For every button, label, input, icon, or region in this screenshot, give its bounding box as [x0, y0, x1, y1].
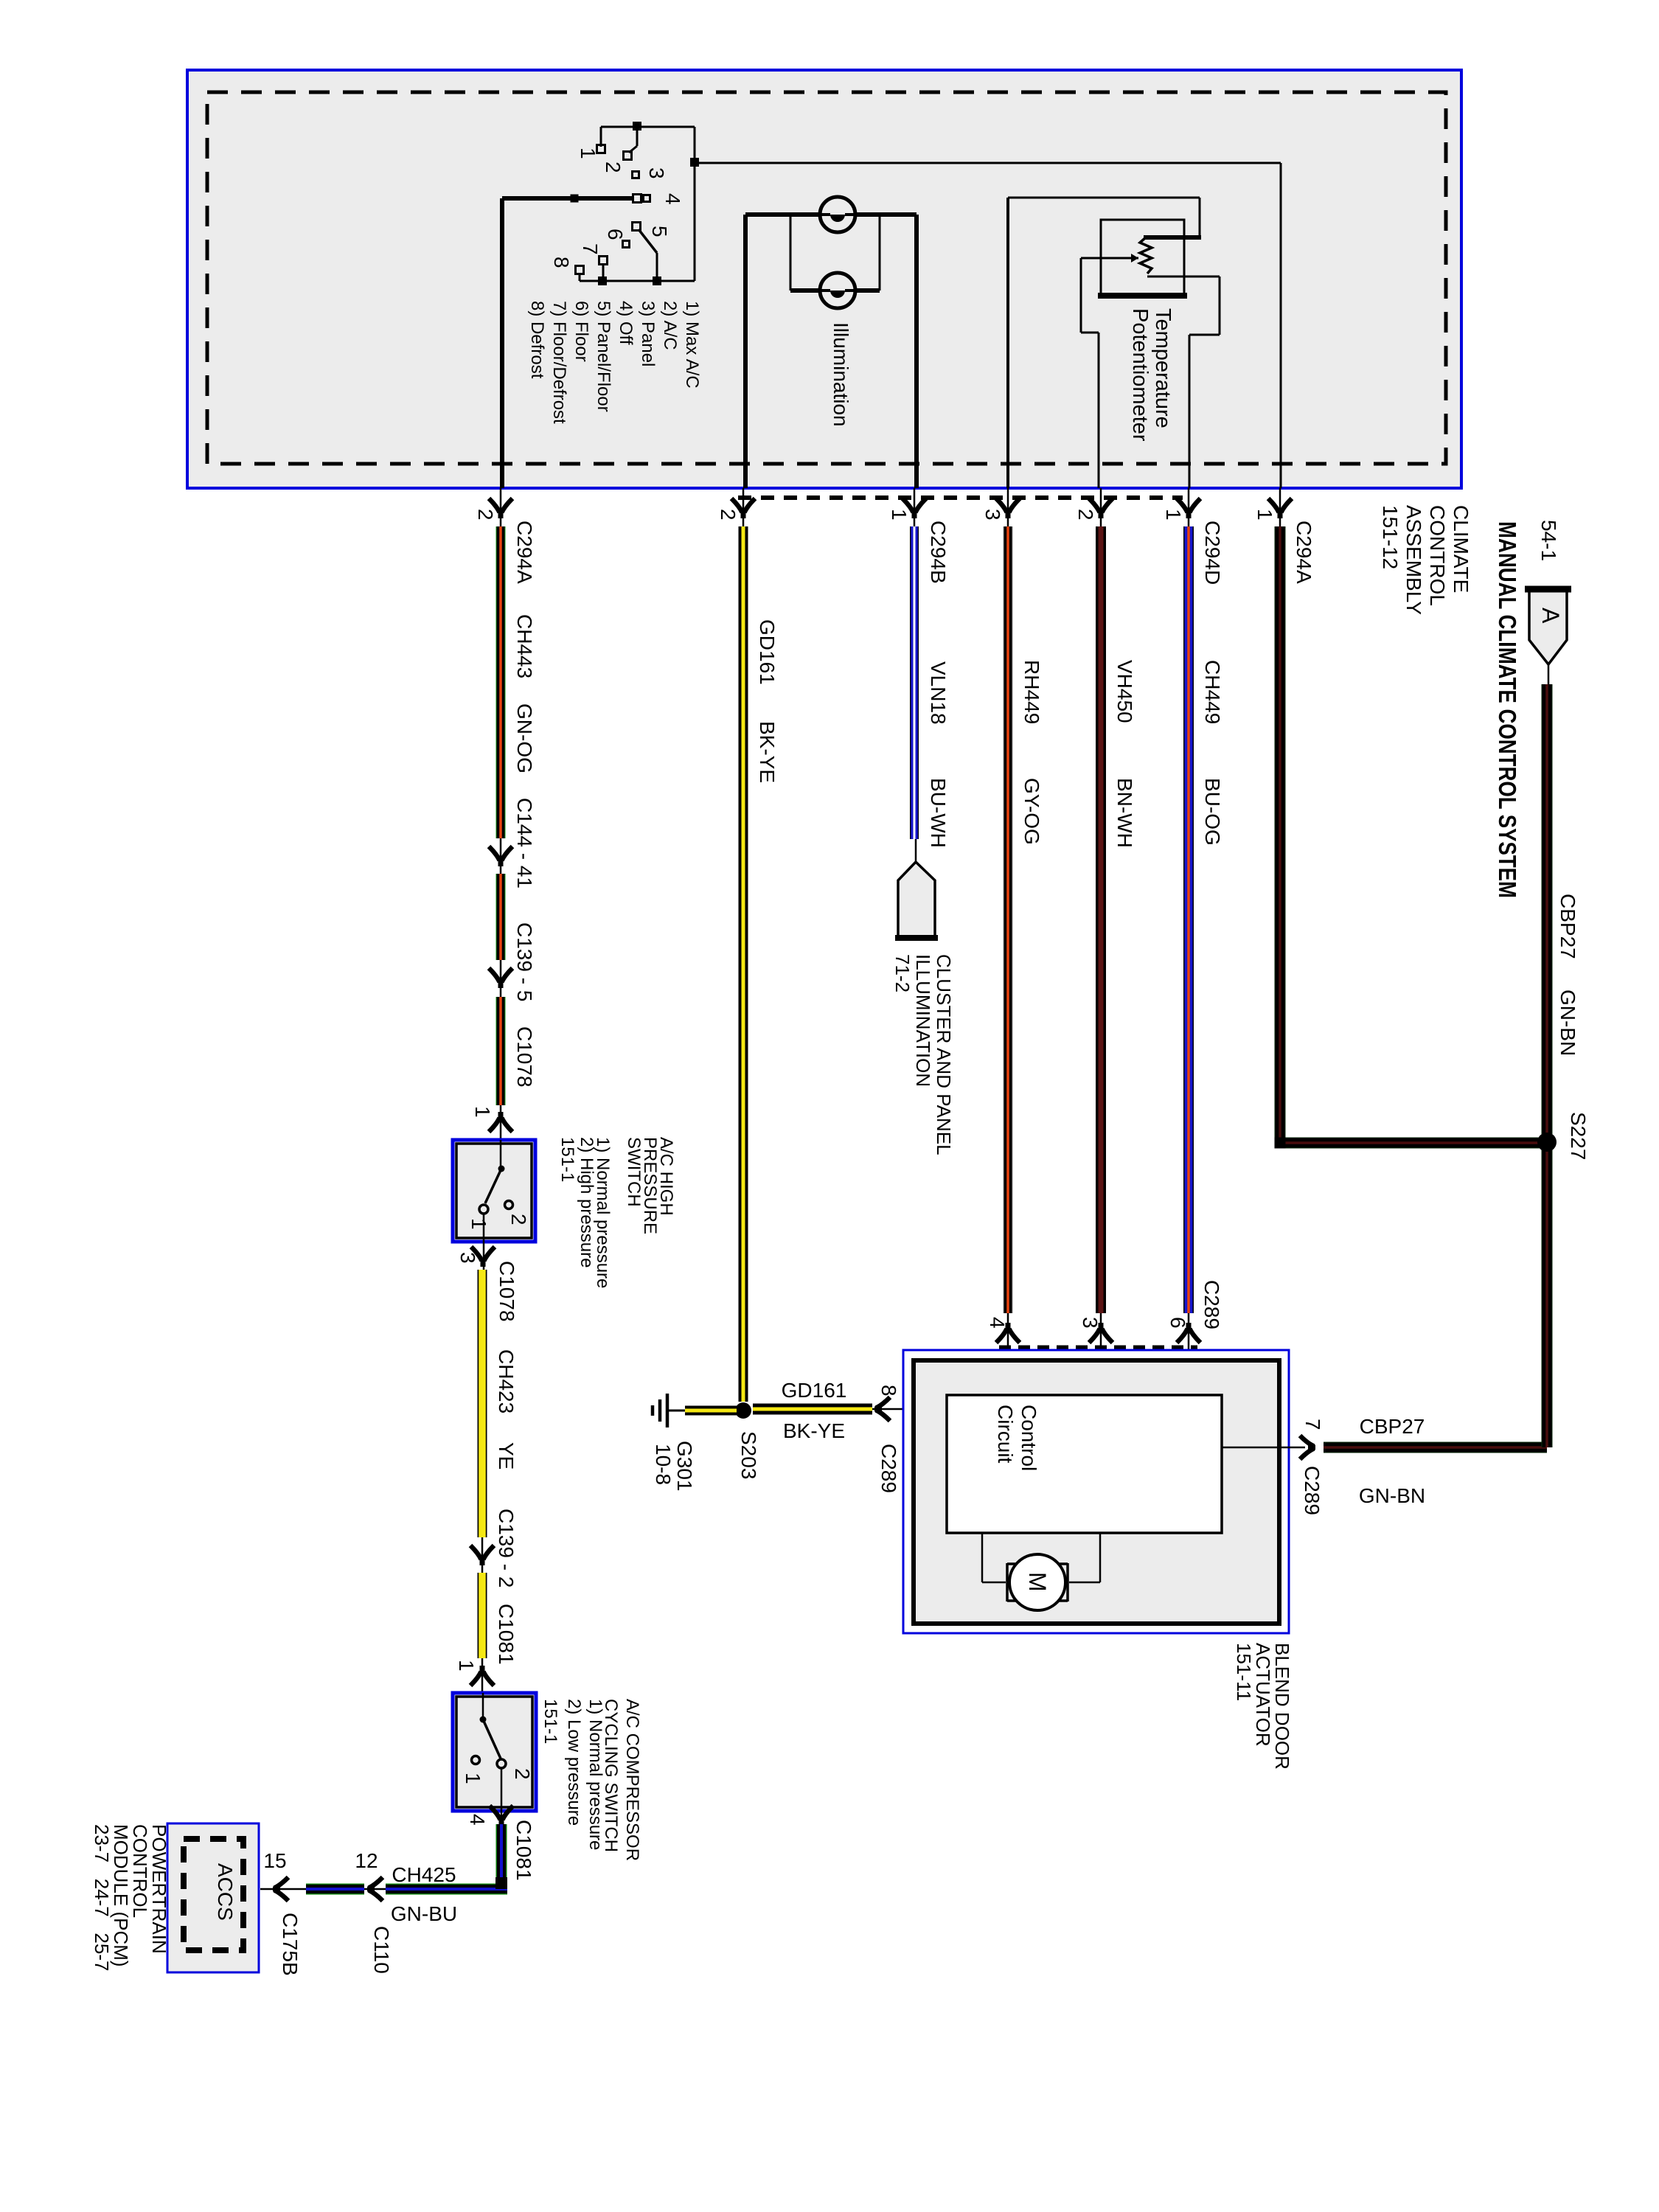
mode switch wiring top [600, 127, 602, 147]
splice S227 [1542, 684, 1553, 1447]
svg-text:1: 1 [577, 147, 599, 159]
cycling switch blade [482, 1693, 484, 1719]
svg-text:C175B: C175B [279, 1913, 302, 1976]
svg-text:2: 2 [1074, 509, 1097, 521]
svg-text:C289: C289 [1200, 1280, 1223, 1329]
potentiometer body box [1101, 220, 1184, 297]
svg-text:54-1: 54-1 [1537, 520, 1560, 561]
svg-text:8: 8 [550, 257, 573, 268]
svg-text:2: 2 [474, 509, 497, 521]
svg-text:1: 1 [467, 1218, 490, 1230]
svg-text:7: 7 [1301, 1419, 1324, 1430]
wire CH425 GN-BU vertical [496, 1824, 507, 1883]
mode switch contact 4 pair [633, 195, 641, 203]
potentiometer wiper (to pin 2) [1081, 257, 1138, 260]
wire GD161 BK-YE to C289 pin 8 [753, 1404, 872, 1415]
svg-text:YE: YE [495, 1442, 518, 1470]
motor brackets [1006, 1563, 1009, 1601]
svg-text:C1081: C1081 [495, 1604, 518, 1665]
svg-text:1: 1 [455, 1660, 478, 1672]
temperature potentiometer feed wire (to pin 3) [1006, 198, 1009, 488]
mode switch wiper blade [639, 229, 657, 253]
svg-text:M: M [1024, 1572, 1051, 1592]
cluster illumination terminal pentagon [915, 839, 917, 862]
mode switch right bus [694, 127, 696, 281]
svg-text:VH450: VH450 [1113, 660, 1136, 723]
svg-text:GY-OG: GY-OG [1020, 778, 1043, 845]
mode switch wiper feed wire (thick) [502, 196, 633, 201]
svg-text:CH425: CH425 [392, 1863, 456, 1886]
illumination lamp 1 [820, 197, 855, 232]
control circuit box [947, 1395, 1222, 1533]
svg-text:8: 8 [877, 1385, 900, 1397]
wire from wiper down to C294A pin 2 [500, 198, 504, 488]
svg-text:RH449: RH449 [1020, 660, 1043, 724]
svg-text:C110: C110 [370, 1926, 393, 1974]
svg-text:BN-WH: BN-WH [1113, 778, 1136, 848]
wire 3 exit stub and connector arrow pin 1 [914, 488, 916, 526]
svg-text:GD161: GD161 [756, 619, 779, 685]
mode switch contact 5 [633, 223, 641, 231]
wire CH423 YE segment 1 [478, 1270, 487, 1537]
svg-text:C289: C289 [877, 1444, 900, 1493]
wire VH450 BN-WH [1096, 526, 1106, 1313]
illumination lamp 2 [820, 273, 855, 308]
svg-text:10-8: 10-8 [652, 1444, 675, 1485]
mode switch bottom bus [580, 280, 695, 282]
svg-text:BU-OG: BU-OG [1201, 778, 1224, 846]
svg-text:3: 3 [1079, 1317, 1102, 1329]
svg-text:3: 3 [645, 167, 668, 179]
svg-text:C294A: C294A [1293, 521, 1315, 584]
connector C289 pin 8 [872, 1408, 947, 1411]
svg-text:TemperaturePotentiometer: TemperaturePotentiometer [1128, 308, 1175, 442]
svg-text:4: 4 [661, 193, 684, 205]
wire 6 exit stub and connector arrow pin 1 [1188, 488, 1190, 526]
connector C1078 pin 1 [500, 1105, 502, 1140]
wire 2 exit stub and connector arrow pin 2 [742, 488, 745, 526]
svg-text:5: 5 [648, 226, 671, 237]
svg-text:1: 1 [471, 1106, 494, 1118]
HP switch exit wire pin 3 [483, 1214, 485, 1270]
svg-text:C1078: C1078 [495, 1261, 518, 1322]
svg-text:2: 2 [507, 1214, 530, 1225]
wire GN-OG segment 3 [496, 997, 506, 1105]
svg-text:GD161: GD161 [782, 1379, 847, 1402]
wire GN-BU segment 2 [306, 1884, 364, 1895]
wire GD161 BK-YE vertical [739, 526, 748, 1402]
wiper feed junction tick [571, 195, 577, 201]
svg-text:4: 4 [466, 1814, 489, 1826]
wire VLN18 BU-WH [910, 526, 919, 839]
A/C high pressure switch box [453, 1140, 535, 1242]
svg-text:GN-BU: GN-BU [391, 1902, 457, 1925]
svg-text:15: 15 [263, 1849, 286, 1872]
svg-text:POWERTRAINCONTROLMODULE (PCM)2: POWERTRAINCONTROLMODULE (PCM)23-7 24-7 2… [91, 1824, 170, 1971]
svg-text:GN-BN: GN-BN [1359, 1484, 1425, 1507]
svg-text:CH449: CH449 [1201, 660, 1224, 724]
svg-text:GN-BN: GN-BN [1557, 990, 1579, 1056]
A/C compressor cycling switch box [453, 1693, 536, 1811]
svg-text:2: 2 [717, 509, 740, 521]
potentiometer resistive element zigzag [1140, 237, 1152, 274]
svg-text:GN-OG: GN-OG [513, 703, 536, 773]
svg-text:4: 4 [986, 1317, 1009, 1329]
connector C139-5 [500, 960, 502, 997]
connector C175B pin 15 [260, 1888, 306, 1891]
svg-text:S203: S203 [737, 1431, 760, 1479]
ground symbol G301 [666, 1394, 669, 1427]
svg-text:6: 6 [1166, 1317, 1189, 1329]
climate control assembly box [187, 70, 1461, 488]
wire C294A CBP27 GN-BN from assembly [1275, 526, 1286, 1143]
mode switch contact 6 [623, 241, 630, 248]
mode switch contact 8 [576, 266, 584, 274]
wire 7 exit stub and connector arrow pin 1 [1279, 488, 1281, 526]
svg-text:MANUAL CLIMATE CONTROL SYSTEM: MANUAL CLIMATE CONTROL SYSTEM [1494, 521, 1521, 898]
wire CBP27 GN-BN from actuator to S227 [1324, 1442, 1547, 1453]
blend door actuator outer box [903, 1350, 1289, 1633]
svg-text:C1078: C1078 [513, 1026, 536, 1088]
svg-text:S227: S227 [1567, 1112, 1590, 1160]
svg-text:BK-YE: BK-YE [756, 721, 779, 783]
mode switch contact 1 [597, 145, 605, 153]
svg-text:2: 2 [602, 161, 625, 173]
svg-text:6: 6 [604, 229, 627, 240]
svg-text:C139 - 5: C139 - 5 [513, 922, 536, 1001]
wire RH449 GY-OG [1004, 526, 1013, 1313]
svg-text:G301: G301 [673, 1441, 696, 1492]
potentiometer top terminal thick segment [1144, 235, 1201, 240]
svg-text:1: 1 [462, 1773, 484, 1784]
svg-text:2: 2 [511, 1768, 534, 1780]
svg-text:VLN18: VLN18 [927, 661, 950, 725]
mode switch contact 7 [599, 257, 608, 265]
svg-text:1: 1 [888, 509, 911, 521]
blend door actuator body [914, 1360, 1279, 1624]
svg-text:CBP27: CBP27 [1360, 1415, 1425, 1438]
C289 connector dashed boundary [999, 1346, 1197, 1349]
svg-text:Illumination: Illumination [829, 322, 852, 427]
connector A pentagon [1529, 589, 1567, 664]
wire CH449 BU-OG [1183, 526, 1194, 1313]
svg-text:C294D: C294D [1201, 521, 1224, 585]
svg-text:1: 1 [1253, 509, 1276, 521]
mode switch contact 3 [633, 172, 639, 178]
wire 1 exit stub and connector arrow pin 2 [500, 488, 502, 526]
svg-text:C139 - 2: C139 - 2 [495, 1509, 518, 1587]
assembly inner dashed outline [207, 92, 1446, 464]
wire YE segment 2 [478, 1573, 487, 1658]
ground wire to G301 [685, 1406, 737, 1416]
svg-text:BK-YE: BK-YE [783, 1419, 845, 1442]
motor wiring [981, 1533, 984, 1582]
junction node at contact 1/2 wire [634, 123, 641, 130]
wire 5 exit stub and connector arrow pin 2 [1100, 488, 1102, 526]
svg-text:A: A [1537, 608, 1564, 624]
svg-text:ControlCircuit: ControlCircuit [994, 1405, 1040, 1471]
mode switch contact 2 stem [636, 127, 639, 146]
svg-text:C144 - 41: C144 - 41 [513, 798, 536, 888]
svg-text:CH423: CH423 [495, 1349, 518, 1413]
svg-text:C294B: C294B [927, 521, 950, 584]
svg-text:7: 7 [579, 243, 602, 255]
HP switch blade [500, 1140, 502, 1169]
wire CH443 GN-OG segment 1 [496, 526, 506, 838]
splice S203 [735, 1402, 751, 1419]
connector C139-2 [481, 1537, 484, 1573]
wire CH425 GN-BU horizontal to C110 [386, 1884, 507, 1895]
svg-text:BU-WH: BU-WH [927, 778, 950, 848]
wire GN-OG segment 2 [496, 874, 506, 960]
mode switch contact 2 [624, 152, 632, 160]
svg-text:CBP27: CBP27 [1557, 894, 1579, 959]
svg-text:C294A: C294A [513, 521, 536, 584]
svg-text:CH443: CH443 [513, 614, 536, 678]
svg-text:ACCS: ACCS [214, 1863, 237, 1921]
potentiometer lower terminal (to pin 1) [1147, 276, 1220, 278]
wire 4 exit stub and connector arrow pin 3 [1007, 488, 1009, 526]
actuator pin arrows 4,3,6 [1007, 1313, 1009, 1395]
svg-text:12: 12 [355, 1849, 378, 1872]
svg-text:3: 3 [456, 1252, 479, 1264]
illumination lamp circuit buses [743, 215, 748, 488]
actuator output pin 7 [1222, 1447, 1305, 1449]
mode switch common feed to CBP27 [695, 162, 1281, 164]
PCM ACCS dashed box [184, 1839, 243, 1950]
C294 connector dashed boundary [738, 495, 1183, 500]
svg-text:C289: C289 [1301, 1466, 1324, 1515]
cycling switch exit pin 4 [501, 1768, 503, 1824]
powertrain control module box [167, 1823, 259, 1972]
motor M [1009, 1554, 1065, 1610]
connector C110 [364, 1888, 386, 1891]
connector C144-41 [500, 838, 502, 874]
connector C1081 pin 1 [481, 1658, 484, 1693]
lamp2 parallel branch [790, 215, 792, 291]
svg-text:1: 1 [1162, 509, 1185, 521]
svg-text:C1081: C1081 [512, 1820, 535, 1881]
svg-text:3: 3 [981, 509, 1004, 521]
